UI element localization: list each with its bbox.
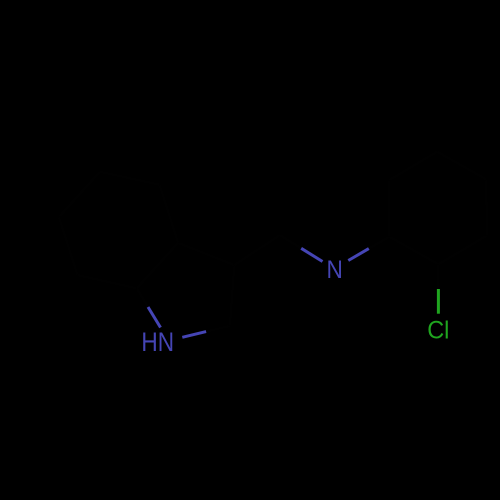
wire: bond C13-C14 (invisible) <box>485 179 489 235</box>
wire: bond N2-C11 amine nitrogen half right (blue stub) <box>348 249 369 261</box>
wire: bond C12-Cl carbon half (invisible) <box>437 264 440 289</box>
wire: bond C12-C13 (invisible) <box>438 236 487 265</box>
wire: bond C3a-C4 (invisible) <box>160 185 179 243</box>
wire: bond N1-C2 nitrogen half (blue stub) <box>182 332 206 338</box>
wire: bond C6-C7 (invisible) <box>59 217 78 275</box>
wire: bond C15-C16 (invisible) <box>389 152 437 181</box>
wire: bond C3-C10 methylene (invisible) <box>234 235 280 265</box>
wire: bond C14-C15 (invisible) <box>437 152 486 180</box>
wire: bond N1-C7a carbon half (invisible) <box>137 288 149 307</box>
wire: bond C12-Cl chlorine half (green stub) <box>437 289 440 314</box>
svg-text:N: N <box>327 256 343 284</box>
wire: bond N1-C7a nitrogen half (blue stub) <box>148 307 161 328</box>
wire: bond C16-C11 (invisible) <box>387 180 391 236</box>
wire: bond N1-C2 carbon half (invisible) <box>206 326 230 332</box>
wire: bond C10-N2 carbon half (invisible) <box>280 235 301 248</box>
wire: bond C10-N2 amine nitrogen half left (blue stub) <box>301 248 322 261</box>
wire: bond C5-C6 (invisible) <box>59 172 100 217</box>
wire: bond C4-C5 (invisible) <box>100 172 160 185</box>
wire: bond C7-C7a (invisible) <box>78 275 137 288</box>
wire: bond C3-C3a (invisible) <box>178 243 234 265</box>
wire: bond C2-C3 (invisible) <box>230 265 234 326</box>
svg-text:HN: HN <box>141 327 174 357</box>
wire: bond C11-C12 (invisible) <box>389 237 438 265</box>
wire: bond N2-C11 carbon half (invisible) <box>369 237 390 249</box>
svg-text:Cl: Cl <box>427 317 449 345</box>
wire: bond C3a-C7a (invisible) <box>137 243 178 288</box>
